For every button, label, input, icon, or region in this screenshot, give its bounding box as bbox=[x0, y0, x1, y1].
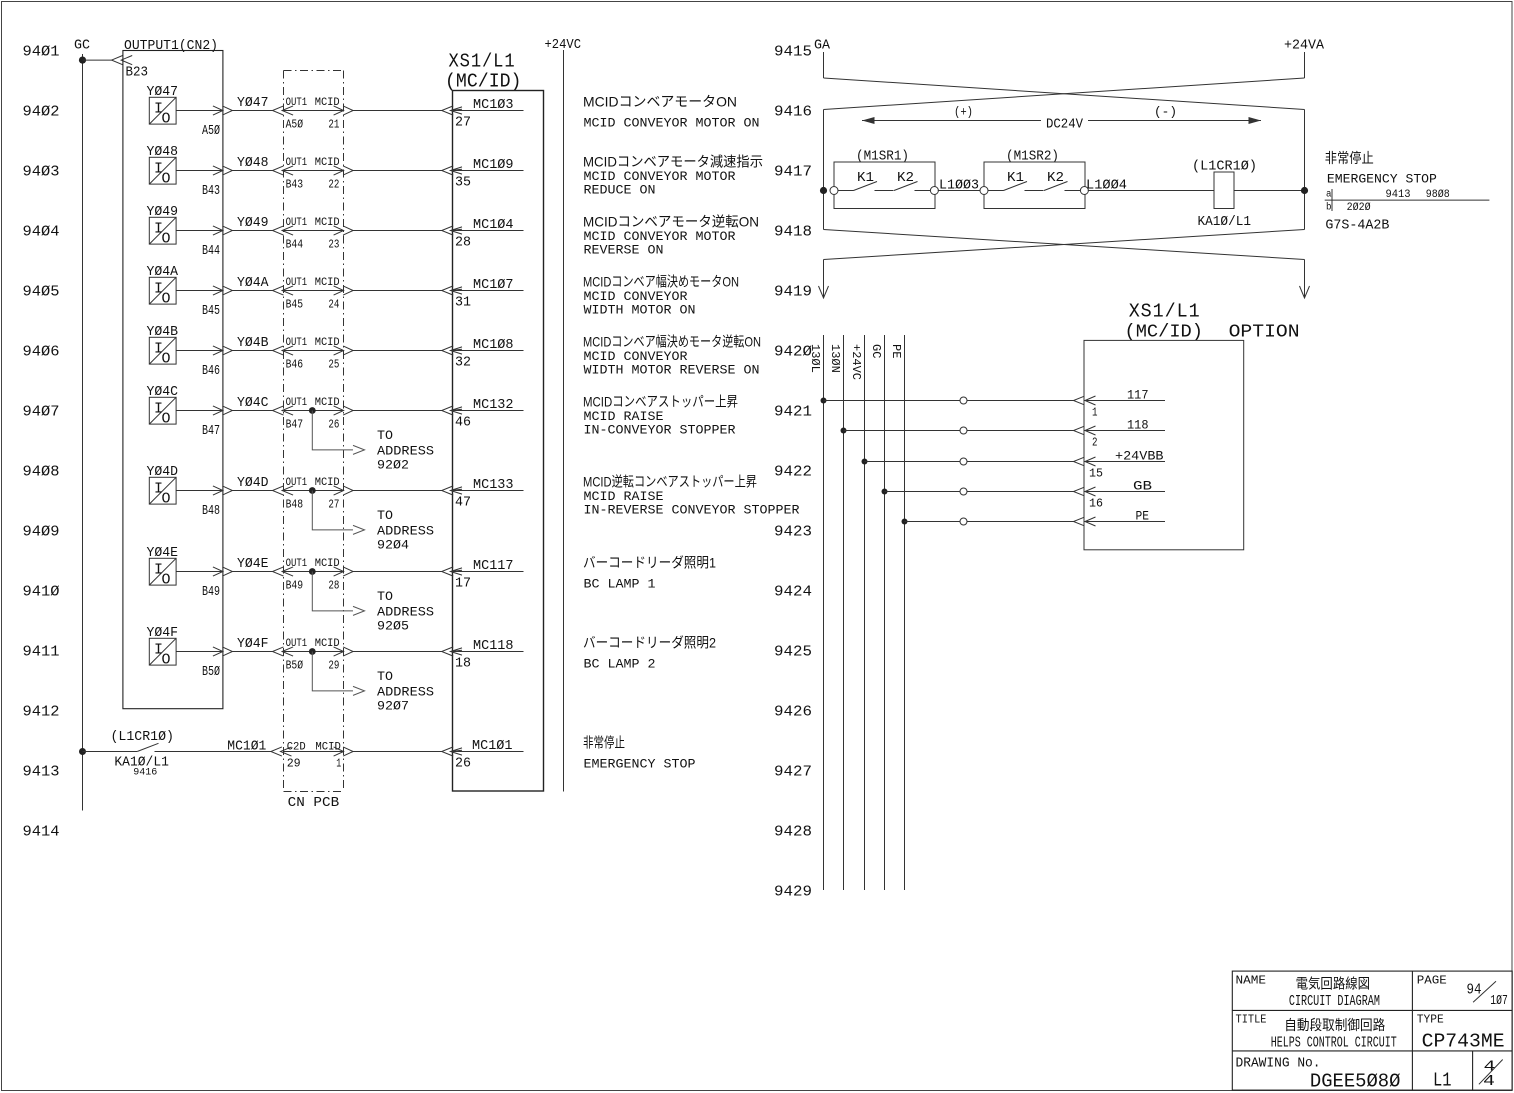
node junction PE tap bbox=[902, 519, 908, 525]
dimension arrow DC24V left head bbox=[862, 117, 875, 124]
svg-text:941Ø: 941Ø bbox=[23, 583, 60, 600]
wire Y04A module to CN2 edge bbox=[176, 290, 223, 292]
contact K2 blade (M1SR1) bbox=[894, 182, 918, 191]
wire GC vertical bus bbox=[884, 335, 886, 890]
wire right rail of safety loop bbox=[1304, 110, 1306, 230]
svg-text:KA1Ø/L1: KA1Ø/L1 bbox=[1198, 214, 1252, 230]
arrow Y04E CN2 crossing double chevron bbox=[213, 567, 223, 576]
svg-text:BC LAMP 2: BC LAMP 2 bbox=[584, 657, 656, 672]
wire left arrow stub bbox=[823, 260, 825, 298]
wire Y04B module to CN2 edge bbox=[176, 350, 223, 352]
svg-text:b: b bbox=[1326, 201, 1332, 213]
svg-text:9422: 9422 bbox=[774, 463, 812, 480]
svg-text:L1ØØ4: L1ØØ4 bbox=[1086, 178, 1127, 194]
node junction 118 tap bbox=[841, 428, 847, 434]
svg-text:BC LAMP 1: BC LAMP 1 bbox=[584, 577, 656, 592]
svg-text:MCIDコンベア幅決めモータ逆転ON: MCIDコンベア幅決めモータ逆転ON bbox=[583, 334, 761, 350]
svg-text:118: 118 bbox=[1127, 418, 1149, 433]
node junction dot Y04F bbox=[309, 648, 316, 655]
svg-text:B43: B43 bbox=[286, 178, 304, 192]
arrowhead left down arrow bbox=[819, 286, 829, 298]
svg-text:OUT1: OUT1 bbox=[286, 157, 308, 169]
svg-text:XS1/L1: XS1/L1 bbox=[449, 51, 516, 73]
svg-text:94: 94 bbox=[1467, 981, 1482, 998]
svg-text:TITLE: TITLE bbox=[1236, 1013, 1267, 1027]
wire 117 tap to OPTION connector bbox=[824, 400, 1074, 402]
svg-text:+24VA: +24VA bbox=[1284, 38, 1325, 54]
arrow to address 9202 bbox=[353, 445, 365, 454]
svg-text:OUTPUT1(CN2): OUTPUT1(CN2) bbox=[124, 38, 218, 54]
svg-text:O: O bbox=[162, 350, 171, 367]
arrow Y04D CN-PCB entry double chevron bbox=[273, 486, 284, 495]
svg-text:27: 27 bbox=[328, 498, 339, 512]
wire Y04B XS1 internal stub bbox=[451, 350, 524, 352]
arrow Y047 CN-PCB exit double chevron bbox=[334, 106, 344, 115]
wire PE tap to OPTION connector bbox=[905, 521, 1074, 523]
wire branch Y04D to address note bbox=[312, 491, 353, 530]
svg-text:MC1Ø7: MC1Ø7 bbox=[473, 277, 514, 293]
wire Y047 CN2 to CN-PCB bbox=[233, 110, 273, 112]
svg-text:YØ47: YØ47 bbox=[237, 95, 269, 111]
node junction 117 tap bbox=[821, 398, 827, 404]
svg-text:G7S-4A2B: G7S-4A2B bbox=[1325, 217, 1389, 233]
wire +24VC vertical bus bbox=[864, 335, 866, 890]
svg-text:TYPE: TYPE bbox=[1417, 1013, 1444, 1027]
wire Y04E CN-PCB to XS1 connector bbox=[353, 571, 442, 573]
svg-text:DRAWING No.: DRAWING No. bbox=[1236, 1055, 1321, 1071]
arrow Y04A CN2 crossing double chevron bbox=[213, 286, 223, 295]
wire Y04F CN-PCB to XS1 connector bbox=[353, 651, 442, 653]
svg-text:IN-REVERSE CONVEYOR STOPPER: IN-REVERSE CONVEYOR STOPPER bbox=[584, 503, 800, 518]
wire GC to contact KA10/L1 bbox=[83, 751, 138, 753]
I/O module Y04C (square with diagonal) bbox=[149, 397, 176, 427]
arrow GB OPTION entry chevron bbox=[1074, 487, 1085, 496]
I/O module Y047 (square with diagonal) bbox=[149, 97, 176, 127]
wire GB tap to OPTION connector bbox=[885, 491, 1074, 493]
svg-text:94Ø3: 94Ø3 bbox=[23, 163, 60, 180]
svg-text:MC1Ø8: MC1Ø8 bbox=[473, 337, 514, 353]
I/O module Y04F (square with diagonal) bbox=[149, 638, 176, 668]
terminal circle on 117 tap bbox=[960, 397, 967, 404]
svg-text:IN-CONVEYOR STOPPER: IN-CONVEYOR STOPPER bbox=[584, 423, 736, 438]
svg-text:94Ø2: 94Ø2 bbox=[23, 103, 60, 120]
wire PE vertical bus bbox=[904, 335, 906, 890]
wire Y04C XS1 internal stub bbox=[451, 410, 524, 412]
title page slash bbox=[1473, 981, 1496, 1002]
svg-text:9412: 9412 bbox=[23, 703, 60, 720]
arrow Y04F CN2 crossing double chevron bbox=[213, 647, 223, 656]
svg-text:1: 1 bbox=[1092, 406, 1098, 420]
wire M1SR2 to relay coil bbox=[1088, 190, 1214, 192]
arrow Y049 XS1 entry chevron bbox=[442, 226, 454, 235]
svg-text:PE: PE bbox=[1136, 509, 1150, 524]
svg-text:27: 27 bbox=[455, 115, 471, 131]
arrow Y049 CN2 crossing double chevron bbox=[213, 226, 223, 235]
I/O module Y04E (square with diagonal) bbox=[149, 558, 176, 588]
svg-text:MC132: MC132 bbox=[473, 397, 514, 413]
wire Y04F XS1 internal stub bbox=[451, 651, 524, 653]
wire 130L vertical bus bbox=[823, 335, 825, 890]
contact KA10/L1 (L1CR10) NO contact blade bbox=[137, 743, 158, 751]
wire Y04E CN2 to CN-PCB bbox=[233, 571, 273, 573]
svg-text:B44: B44 bbox=[202, 243, 220, 259]
svg-text:4: 4 bbox=[1483, 1073, 1495, 1090]
wire +24VC vertical bus bbox=[563, 50, 565, 792]
svg-text:OUT1: OUT1 bbox=[286, 277, 308, 289]
svg-text:29: 29 bbox=[328, 659, 339, 673]
svg-text:OUT1: OUT1 bbox=[286, 97, 308, 109]
node junction right rail bbox=[1301, 187, 1308, 194]
arrow Y04E XS1 entry chevron bbox=[442, 567, 454, 576]
wire crossover lower left-to-right bbox=[824, 230, 1305, 260]
svg-text:9418: 9418 bbox=[774, 223, 812, 240]
svg-text:電気回路線図: 電気回路線図 bbox=[1296, 976, 1371, 992]
dimension line DC24V right segment bbox=[1088, 120, 1261, 122]
svg-text:REDUCE ON: REDUCE ON bbox=[584, 183, 656, 198]
svg-text:B47: B47 bbox=[202, 423, 220, 439]
svg-text:B46: B46 bbox=[202, 363, 220, 379]
svg-text:22: 22 bbox=[328, 178, 339, 192]
arrow Y04A CN-PCB entry double chevron bbox=[273, 286, 284, 295]
arrow Y04C CN-PCB entry double chevron bbox=[273, 406, 284, 415]
wire right arrow stub bbox=[1304, 260, 1306, 298]
svg-text:YØ4A: YØ4A bbox=[237, 275, 269, 291]
svg-text:自動段取制御回路: 自動段取制御回路 bbox=[1284, 1017, 1385, 1033]
svg-text:MCIDコンベアモータON: MCIDコンベアモータON bbox=[583, 94, 737, 110]
svg-text:29: 29 bbox=[287, 757, 301, 771]
wire 130N vertical bus bbox=[843, 335, 845, 890]
arrow Y047 CN2 crossing double chevron bbox=[213, 106, 223, 115]
svg-text:MC1Ø1: MC1Ø1 bbox=[227, 739, 266, 755]
wire Y047 module to CN2 edge bbox=[176, 110, 223, 112]
arrow +24VBB OPTION entry chevron bbox=[1074, 457, 1085, 466]
svg-text:92Ø4: 92Ø4 bbox=[377, 537, 409, 552]
svg-text:バーコードリーダ照明2: バーコードリーダ照明2 bbox=[583, 635, 716, 651]
I/O module Y04D (square with diagonal) bbox=[149, 477, 176, 507]
svg-text:92Ø5: 92Ø5 bbox=[377, 618, 409, 633]
node junction left rail bbox=[820, 187, 827, 194]
title sheet slash bbox=[1479, 1060, 1503, 1085]
svg-text:+24VC: +24VC bbox=[545, 37, 582, 53]
svg-text:15: 15 bbox=[1089, 467, 1103, 481]
svg-text:MC133: MC133 bbox=[473, 477, 514, 493]
wire crossover +24VA to left bbox=[824, 78, 1305, 110]
title block row divider 2 bbox=[1232, 1050, 1512, 1052]
svg-text:EMERGENCY STOP: EMERGENCY STOP bbox=[1327, 172, 1437, 187]
svg-text:9429: 9429 bbox=[774, 883, 812, 900]
terminal circle M1SR2 right bbox=[1080, 187, 1088, 195]
svg-text:EMERGENCY STOP: EMERGENCY STOP bbox=[584, 757, 696, 772]
wire Y04B CN-PCB to XS1 connector bbox=[353, 350, 442, 352]
node GC junction at row 9401 bbox=[79, 57, 86, 64]
arrowhead right down arrow bbox=[1300, 286, 1310, 298]
svg-text:26: 26 bbox=[455, 756, 471, 772]
svg-text:32: 32 bbox=[455, 355, 471, 371]
wire Y04C module to CN2 edge bbox=[176, 410, 223, 412]
svg-text:94Ø4: 94Ø4 bbox=[23, 223, 60, 240]
arrow Y04F XS1 entry chevron bbox=[442, 647, 454, 656]
wire Y048 inside CN-PCB bbox=[284, 170, 344, 172]
wire branch Y04E to address note bbox=[312, 572, 353, 611]
svg-text:24: 24 bbox=[328, 298, 339, 312]
arrow MC101 CN-PCB entry double chevron bbox=[271, 747, 282, 756]
svg-text:MC1Ø9: MC1Ø9 bbox=[473, 157, 514, 173]
arrow PE OPTION entry chevron bbox=[1074, 517, 1085, 526]
relay coil KA10/L1 box bbox=[1214, 172, 1234, 209]
svg-text:94Ø9: 94Ø9 bbox=[23, 523, 60, 540]
wire Y04A XS1 internal stub bbox=[451, 290, 524, 292]
svg-text:B43: B43 bbox=[202, 183, 220, 199]
wire Y049 module to CN2 edge bbox=[176, 230, 223, 232]
svg-text:YØ4E: YØ4E bbox=[237, 556, 269, 572]
contact K1 blade (M1SR2) bbox=[1004, 182, 1028, 191]
wire Y04B inside CN-PCB bbox=[284, 350, 344, 352]
svg-text:L1ØØ3: L1ØØ3 bbox=[939, 178, 979, 194]
wire Y047 XS1 internal stub bbox=[451, 110, 524, 112]
svg-text:OUT1: OUT1 bbox=[286, 558, 308, 570]
wire Y047 inside CN-PCB bbox=[284, 110, 344, 112]
svg-text:9416: 9416 bbox=[774, 103, 812, 120]
svg-text:PAGE: PAGE bbox=[1417, 973, 1447, 987]
arrow Y048 CN-PCB entry double chevron bbox=[273, 166, 284, 175]
I/O module Y04B (square with diagonal) bbox=[149, 337, 176, 367]
svg-text:O: O bbox=[162, 571, 171, 588]
svg-text:94Ø5: 94Ø5 bbox=[23, 283, 60, 300]
svg-text:YØ48: YØ48 bbox=[237, 155, 269, 171]
svg-text:YØ4B: YØ4B bbox=[237, 335, 269, 351]
wire M1SR1 internal stub 3 bbox=[915, 190, 931, 192]
svg-text:25: 25 bbox=[328, 358, 339, 372]
arrow Y048 CN2 crossing double chevron bbox=[213, 166, 223, 175]
terminal circle on GB tap bbox=[960, 488, 967, 495]
wire Y04D CN2 to CN-PCB bbox=[233, 490, 273, 492]
title block page-number divider bbox=[1472, 1051, 1474, 1090]
I/O module Y04A (square with diagonal) bbox=[149, 277, 176, 307]
svg-text:26: 26 bbox=[328, 418, 339, 432]
svg-text:B49: B49 bbox=[202, 584, 220, 600]
svg-text:16: 16 bbox=[1089, 497, 1103, 511]
node junction dot Y04E bbox=[309, 568, 316, 575]
wire M1SR1 to M1SR2 bbox=[938, 190, 981, 192]
svg-text:9411: 9411 bbox=[23, 643, 60, 660]
svg-text:ADDRESS: ADDRESS bbox=[377, 604, 434, 619]
svg-text:28: 28 bbox=[328, 579, 339, 593]
wire MC101 XS1 internal stub bbox=[451, 751, 524, 753]
svg-text:MC1Ø1: MC1Ø1 bbox=[472, 738, 513, 754]
svg-text:942Ø: 942Ø bbox=[774, 343, 812, 360]
arrow Y047 CN-PCB entry double chevron bbox=[273, 106, 284, 115]
wire GC to OUTPUT1 B23 bbox=[83, 59, 112, 61]
wire Y049 XS1 internal stub bbox=[451, 230, 524, 232]
svg-text:35: 35 bbox=[455, 175, 471, 191]
wire Y04B CN2 to CN-PCB bbox=[233, 350, 273, 352]
wire 117 OPTION internal stub bbox=[1085, 400, 1166, 402]
wire Y04D CN-PCB to XS1 connector bbox=[353, 490, 442, 492]
wire +24VBB tap to OPTION connector bbox=[865, 461, 1074, 463]
svg-text:MCIDコンベアストッパー上昇: MCIDコンベアストッパー上昇 bbox=[583, 394, 738, 410]
svg-text:CP743ME: CP743ME bbox=[1422, 1030, 1505, 1052]
svg-text:9426: 9426 bbox=[774, 703, 812, 720]
svg-text:9416: 9416 bbox=[133, 768, 157, 779]
svg-text:NAME: NAME bbox=[1236, 973, 1267, 987]
wire GA stub bbox=[823, 52, 825, 78]
svg-text:ADDRESS: ADDRESS bbox=[377, 684, 434, 699]
wire +24VBB OPTION internal stub bbox=[1085, 461, 1166, 463]
node GC junction at KA10 row bbox=[79, 748, 86, 755]
wire contact to CN-PCB bbox=[155, 751, 271, 753]
wire Y04C CN-PCB to XS1 connector bbox=[353, 410, 442, 412]
svg-text:(MC/ID): (MC/ID) bbox=[1125, 323, 1204, 343]
arrow Y04F CN-PCB entry double chevron bbox=[273, 647, 284, 656]
arrow Y04E CN-PCB exit double chevron bbox=[334, 567, 344, 576]
arrow Y04C CN-PCB exit double chevron bbox=[334, 406, 344, 415]
connector XS1/L1 (MC/ID) box bbox=[453, 91, 544, 792]
svg-text:MC1Ø4: MC1Ø4 bbox=[473, 217, 514, 233]
wire crossover GA to right bbox=[824, 78, 1305, 110]
arrow Y04B CN-PCB entry double chevron bbox=[273, 346, 284, 355]
svg-text:18: 18 bbox=[455, 656, 471, 672]
svg-text:B47: B47 bbox=[286, 418, 304, 432]
svg-text:MC117: MC117 bbox=[473, 558, 514, 574]
arrow Y04B XS1 entry chevron bbox=[442, 346, 454, 355]
svg-text:(L1CR1Ø): (L1CR1Ø) bbox=[111, 729, 175, 745]
arrow Y04C XS1 entry chevron bbox=[442, 406, 454, 415]
wire Y04E module to CN2 edge bbox=[176, 571, 223, 573]
wire Y049 CN2 to CN-PCB bbox=[233, 230, 273, 232]
svg-text:2Ø2Ø: 2Ø2Ø bbox=[1347, 202, 1371, 214]
arrow Y04D XS1 entry chevron bbox=[442, 486, 454, 495]
wire Y04D inside CN-PCB bbox=[284, 490, 344, 492]
wire relay coil to right rail bbox=[1234, 190, 1305, 192]
svg-text:B44: B44 bbox=[286, 238, 304, 252]
svg-text:MCIDコンベアモータ逆転ON: MCIDコンベアモータ逆転ON bbox=[583, 214, 759, 230]
svg-text:1Ø7: 1Ø7 bbox=[1490, 993, 1508, 1009]
svg-text:WIDTH MOTOR ON: WIDTH MOTOR ON bbox=[584, 303, 696, 318]
svg-text:9421: 9421 bbox=[774, 403, 812, 420]
switch module M1SR1 box bbox=[834, 162, 935, 209]
svg-text:YØ4D: YØ4D bbox=[237, 475, 269, 491]
svg-text:O: O bbox=[162, 290, 171, 307]
svg-text:A5Ø: A5Ø bbox=[286, 118, 304, 132]
svg-text:XS1/L1: XS1/L1 bbox=[1129, 301, 1201, 323]
wire 118 OPTION internal stub bbox=[1085, 430, 1166, 432]
arrow 118 OPTION entry chevron bbox=[1074, 426, 1085, 435]
svg-text:9427: 9427 bbox=[774, 763, 812, 780]
svg-text:HELPS CONTROL CIRCUIT: HELPS CONTROL CIRCUIT bbox=[1271, 1034, 1397, 1051]
wire M1SR1 internal stub 2 bbox=[875, 190, 894, 192]
node junction +24VBB tap bbox=[862, 459, 868, 465]
wire left rail of safety loop bbox=[823, 110, 825, 230]
svg-text:MCIDコンベア幅決めモータON: MCIDコンベア幅決めモータON bbox=[583, 274, 739, 290]
svg-text:9414: 9414 bbox=[23, 823, 60, 840]
svg-text:TO: TO bbox=[377, 589, 393, 604]
contact K1 blade (M1SR1) bbox=[854, 182, 878, 191]
svg-text:13ØL: 13ØL bbox=[808, 344, 822, 373]
arrow MC101 CN-PCB exit double chevron bbox=[334, 747, 344, 756]
svg-text:9425: 9425 bbox=[774, 643, 812, 660]
arrow Y04A CN-PCB exit double chevron bbox=[334, 286, 344, 295]
svg-text:28: 28 bbox=[455, 235, 471, 251]
svg-text:非常停止: 非常停止 bbox=[1325, 150, 1374, 166]
wire Y04F CN2 to CN-PCB bbox=[233, 651, 273, 653]
svg-text:9413: 9413 bbox=[1386, 189, 1411, 201]
arrow Y049 CN-PCB exit double chevron bbox=[334, 226, 344, 235]
wire Y04D XS1 internal stub bbox=[451, 490, 524, 492]
wire Y04C inside CN-PCB bbox=[284, 410, 344, 412]
svg-text:(+): (+) bbox=[954, 104, 973, 119]
arrow Y04E CN-PCB entry double chevron bbox=[273, 567, 284, 576]
svg-text:(MC/ID): (MC/ID) bbox=[445, 71, 522, 93]
svg-text:MCIDコンベアモータ減速指示: MCIDコンベアモータ減速指示 bbox=[583, 154, 763, 170]
arrow Y047 XS1 entry chevron bbox=[442, 106, 454, 115]
module CN PCB dashed boundary bottom bbox=[284, 791, 344, 793]
svg-text:+24VBB: +24VBB bbox=[1115, 449, 1164, 464]
svg-text:9415: 9415 bbox=[774, 43, 812, 60]
svg-text:OUT1: OUT1 bbox=[286, 337, 308, 349]
svg-text:ADDRESS: ADDRESS bbox=[377, 443, 434, 458]
I/O module Y048 (square with diagonal) bbox=[149, 157, 176, 187]
svg-text:O: O bbox=[162, 651, 171, 668]
svg-text:9428: 9428 bbox=[774, 823, 812, 840]
svg-text:46: 46 bbox=[455, 415, 471, 431]
svg-text:92Ø2: 92Ø2 bbox=[377, 457, 409, 472]
svg-text:94Ø8: 94Ø8 bbox=[23, 463, 60, 480]
module CN PCB dashed boundary right bbox=[343, 71, 345, 792]
svg-text:MC118: MC118 bbox=[473, 638, 514, 654]
svg-text:CIRCUIT DIAGRAM: CIRCUIT DIAGRAM bbox=[1289, 993, 1380, 1010]
svg-text:TO: TO bbox=[377, 428, 393, 443]
svg-text:9417: 9417 bbox=[774, 163, 812, 180]
svg-text:B5Ø: B5Ø bbox=[202, 664, 220, 680]
svg-text:47: 47 bbox=[455, 495, 471, 511]
svg-text:MCID CONVEYOR MOTOR ON: MCID CONVEYOR MOTOR ON bbox=[584, 116, 760, 131]
svg-text:B45: B45 bbox=[202, 303, 220, 319]
svg-text:+24VC: +24VC bbox=[849, 344, 863, 380]
note a/b separator tick bbox=[1331, 189, 1333, 211]
svg-text:B23: B23 bbox=[126, 65, 149, 81]
svg-text:94Ø6: 94Ø6 bbox=[23, 343, 60, 360]
svg-text:ADDRESS: ADDRESS bbox=[377, 523, 434, 538]
svg-text:DGEE5Ø8Ø: DGEE5Ø8Ø bbox=[1310, 1070, 1401, 1092]
arrow Y048 CN-PCB exit double chevron bbox=[334, 166, 344, 175]
svg-text:9419: 9419 bbox=[774, 283, 812, 300]
svg-text:YØ4F: YØ4F bbox=[237, 636, 269, 652]
svg-text:a: a bbox=[1326, 190, 1332, 201]
svg-text:31: 31 bbox=[455, 295, 471, 311]
dimension arrow DC24V right head bbox=[1249, 117, 1262, 124]
wire Y04F module to CN2 edge bbox=[176, 651, 223, 653]
node junction GB tap bbox=[882, 489, 888, 495]
svg-text:94Ø1: 94Ø1 bbox=[23, 43, 60, 60]
arrow Y04F CN-PCB exit double chevron bbox=[334, 647, 344, 656]
wire PE OPTION internal stub bbox=[1085, 521, 1166, 523]
module CN PCB dashed boundary left bbox=[283, 71, 285, 792]
svg-text:OUT1: OUT1 bbox=[286, 397, 308, 409]
svg-text:B48: B48 bbox=[202, 503, 220, 519]
svg-text:B48: B48 bbox=[286, 498, 304, 512]
wire M1SR2 internal stub 3 bbox=[1065, 190, 1081, 192]
wire Y049 inside CN-PCB bbox=[284, 230, 344, 232]
svg-text:MC1Ø3: MC1Ø3 bbox=[473, 97, 514, 113]
dimension line DC24V left segment bbox=[862, 120, 1041, 122]
svg-text:非常停止: 非常停止 bbox=[583, 735, 625, 751]
svg-text:9424: 9424 bbox=[774, 583, 812, 600]
svg-text:117: 117 bbox=[1127, 388, 1149, 403]
wire GC vertical bus bbox=[82, 54, 84, 811]
svg-text:TO: TO bbox=[377, 669, 393, 684]
svg-text:92Ø7: 92Ø7 bbox=[377, 698, 409, 713]
svg-text:OUT1: OUT1 bbox=[286, 638, 308, 650]
